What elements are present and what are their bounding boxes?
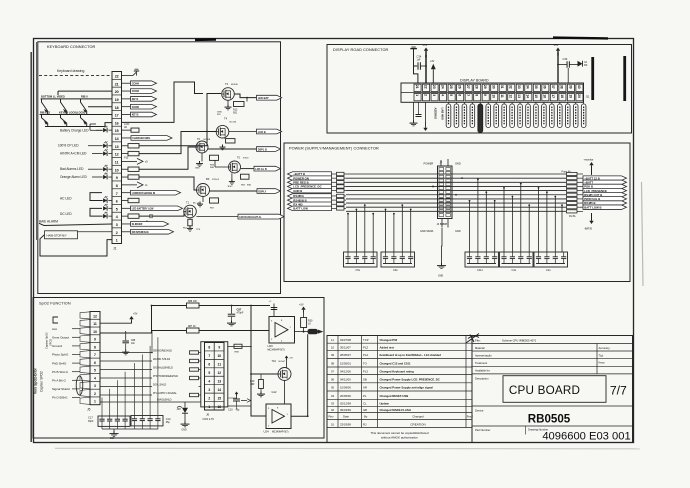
- svg-text:BK: BK: [584, 64, 588, 67]
- ground under BK: [202, 197, 204, 202]
- resistor at pin 4: [122, 215, 129, 217]
- svg-text:Changed RESET-USB: Changed RESET-USB: [380, 394, 409, 398]
- display connector cell pin 32: [508, 84, 515, 91]
- display net flag B06: [494, 104, 499, 128]
- resistor at pin 13: [122, 145, 129, 147]
- wires labels to J6: [199, 352, 201, 354]
- svg-text:02: 02: [331, 408, 335, 412]
- svg-text:19: 19: [568, 94, 572, 98]
- svg-text:Capteur SpO2: Capteur SpO2: [45, 332, 49, 349]
- svg-text:Part Number: Part Number: [475, 428, 490, 432]
- sheet border frame: [34, 39, 634, 443]
- svg-text:40: 40: [577, 85, 581, 89]
- LED diode at pin 15: [103, 126, 107, 133]
- display gnd branch under connector: [413, 102, 415, 121]
- svg-text:SENSOR&SHLD: SENSOR&SHLD: [153, 350, 172, 353]
- J7 bottom stubs: [441, 219, 443, 228]
- wire: [100, 386, 152, 388]
- svg-text:+5V: +5V: [289, 358, 293, 360]
- svg-text:+5V: +5V: [299, 303, 304, 306]
- ground under R40: [260, 389, 262, 393]
- T6 source ground: [201, 153, 203, 161]
- svg-text:TCP: TCP: [363, 338, 369, 342]
- svg-text:GND: GND: [455, 161, 461, 165]
- transistor T1: [184, 205, 197, 218]
- resistor under T1: [189, 218, 191, 220]
- wire R30 to output node: [303, 328, 305, 332]
- svg-text:Changed P02: Changed P02: [380, 338, 398, 342]
- svg-text:BATT LOW: BATT LOW: [293, 207, 308, 211]
- wire pin 20 to net label: [122, 90, 131, 92]
- connector J1 cell divider: [112, 117, 122, 119]
- wire C34 to +5V rail: [420, 65, 426, 67]
- wire drop: [520, 184, 522, 252]
- svg-text:C5x: C5x: [356, 268, 361, 272]
- svg-text:7: 7: [94, 353, 96, 357]
- svg-text:14: 14: [115, 137, 119, 141]
- bus wire row 9: [346, 206, 566, 208]
- svg-text:7: 7: [466, 94, 470, 96]
- T10 gate wire: [251, 373, 278, 375]
- svg-text:9: 9: [218, 346, 220, 350]
- power right net label +BATT 12 B: [583, 176, 627, 181]
- svg-text:U24: U24: [264, 430, 270, 434]
- keyboard matrix wire pin 19: [41, 98, 113, 100]
- wire drop: [116, 380, 118, 410]
- power left net label BATT LOW: [288, 206, 332, 211]
- resistor R30: [301, 318, 307, 328]
- display connector cell pin 26: [457, 84, 464, 91]
- display connector cell pin 38: [559, 84, 566, 91]
- display net flag B03: [470, 104, 475, 128]
- revision row 04: [331, 394, 408, 398]
- bracket symbol: [53, 317, 58, 323]
- bus wire row 2: [346, 177, 566, 179]
- svg-text:96B: 96B: [247, 184, 251, 186]
- connector J1 cell divider: [112, 219, 122, 221]
- svg-text:LED BATTERY LOW: LED BATTERY LOW: [132, 208, 155, 211]
- power left net label RX 485: [288, 202, 332, 207]
- display connector cell pin 4: [440, 94, 447, 101]
- display connector cell pin 25: [448, 84, 455, 91]
- svg-text:Available for: Available for: [475, 369, 490, 373]
- svg-text:33: 33: [517, 85, 521, 89]
- svg-text:+5V: +5V: [133, 313, 138, 316]
- wire power bar down to cap: [414, 49, 418, 83]
- LED diode at pin 5: [103, 204, 107, 211]
- svg-text:6: 6: [94, 361, 96, 365]
- svg-text:C11x: C11x: [477, 268, 484, 272]
- svg-text:470pF: 470pF: [237, 312, 244, 315]
- display connector cell pin 5: [448, 94, 455, 101]
- svg-text:10: 10: [331, 345, 335, 349]
- revision creation row: [331, 422, 426, 426]
- wire from left label: [332, 195, 337, 197]
- svg-text:12: 12: [115, 153, 119, 157]
- connector J1 cell divider: [112, 211, 122, 213]
- keyboard drawing dashed wire: [39, 74, 112, 76]
- svg-text:Changed C12 and C101: Changed C12 and C101: [380, 361, 412, 365]
- T4 drain wire to net: [229, 130, 257, 132]
- wire from left label: [332, 207, 337, 209]
- svg-text:22: 22: [423, 85, 427, 89]
- wire 100% CP LED: [88, 145, 103, 147]
- resistor R55: [241, 174, 250, 179]
- wire U20 output to pill: [295, 331, 309, 333]
- title block row dividers: [472, 344, 633, 435]
- decoupling cap above U20: [273, 304, 275, 317]
- power right net label LCD_PRESENCE: [583, 188, 627, 193]
- wire pin12 to T4 gate: [139, 132, 216, 154]
- ground symbol under display connector: [410, 121, 418, 126]
- svg-text:5: 5: [449, 94, 453, 96]
- LED diode at pin 10: [103, 165, 107, 172]
- svg-text:45p: 45p: [166, 421, 171, 424]
- svg-text:Scheme CPU /RB0505 4071: Scheme CPU /RB0505 4071: [502, 338, 537, 342]
- wire pin 21 to net label: [122, 82, 131, 84]
- svg-text:DISPLAY BOARD: DISPLAY BOARD: [460, 78, 489, 82]
- display connector cell pin 30: [491, 84, 498, 91]
- bus wire row 1: [346, 173, 566, 175]
- svg-text:CPU BOARD: CPU BOARD: [509, 384, 580, 397]
- gnd under J7 region: [441, 219, 443, 265]
- svg-text:15/05/01: 15/05/01: [340, 361, 351, 365]
- bus wire row 3: [346, 181, 566, 183]
- svg-text:Keus: Keus: [599, 361, 606, 365]
- net label CON4: [131, 81, 157, 86]
- net label DISPLAY B: [257, 147, 281, 152]
- series resistor right row 9: [567, 206, 578, 209]
- svg-text:6: 6: [116, 200, 118, 204]
- svg-text:13: 13: [517, 94, 521, 98]
- svg-text:1uF: 1uF: [417, 59, 422, 62]
- svg-text:KB INTERFACE: KB INTERFACE: [132, 231, 149, 234]
- svg-text:+C: +C: [269, 301, 272, 303]
- wire: [100, 360, 152, 362]
- display net flag B17: [581, 104, 586, 128]
- svg-text:without AMOK authorization: without AMOK authorization: [381, 436, 418, 440]
- svg-text:LOWBAT/CHARGE IN: LOWBAT/CHARGE IN: [132, 192, 156, 195]
- small series resistor: [190, 351, 199, 354]
- signal wire: [72, 371, 80, 373]
- svg-text:Vers SpO2-DrOr: Vers SpO2-DrOr: [34, 368, 38, 394]
- display connector cell pin 39: [567, 84, 574, 91]
- small series resistor: [190, 368, 199, 371]
- display connector cell pin 31: [499, 84, 506, 91]
- wire: [100, 352, 152, 354]
- wire C36 branch down: [567, 68, 569, 83]
- svg-text:CON 2-TK: CON 2-TK: [203, 418, 215, 421]
- svg-text:C4x: C4x: [512, 268, 517, 272]
- svg-text:96B: 96B: [210, 167, 214, 169]
- signal wire: [72, 328, 80, 330]
- svg-text:11: 11: [331, 338, 334, 342]
- display connector cell pin 15: [533, 94, 540, 101]
- wire drop: [401, 205, 403, 252]
- wire: [100, 394, 152, 396]
- svg-text:27: 27: [466, 85, 470, 89]
- display net flag B05: [486, 104, 491, 128]
- cap banks bottom bus wire: [102, 428, 158, 430]
- net label LCD B: [257, 129, 282, 134]
- revision row 10: [331, 345, 394, 349]
- display net flag B12: [542, 104, 547, 128]
- net label KB INTERFACE at pin 2: [122, 231, 131, 233]
- display net flag B09: [518, 104, 523, 128]
- vertical wire from J5 row to top run: [100, 306, 152, 334]
- svg-text:HAIB-STOP B/Y: HAIB-STOP B/Y: [47, 234, 67, 238]
- revision row 08: [331, 361, 411, 365]
- signal wire: [72, 345, 80, 347]
- wire from left label: [332, 177, 337, 179]
- J7 top stubs: [440, 160, 442, 166]
- svg-text:GND: GND: [217, 112, 222, 114]
- svg-text:KEY1: KEY1: [132, 97, 139, 101]
- net label CON3: [131, 89, 157, 94]
- U24 output wire right and up: [291, 334, 308, 416]
- power left net label POWER ON: [288, 176, 332, 181]
- power left net label RS485A: [288, 194, 332, 199]
- svg-text:3P62: 3P62: [228, 186, 234, 188]
- key switch S3: [81, 99, 87, 111]
- svg-text:GND: GND: [182, 430, 187, 432]
- T2 drain wire: [234, 94, 256, 98]
- J5 pin funnels: [80, 312, 90, 405]
- svg-text:Rx 8A: Rx 8A: [569, 215, 576, 218]
- display net flag B14: [558, 104, 563, 128]
- svg-text:J5: J5: [87, 408, 91, 412]
- keyboard matrix wire pin 20: [58, 91, 112, 95]
- display net flag B07: [502, 104, 507, 128]
- resistor under BK: [210, 198, 219, 203]
- svg-text:8: 8: [208, 346, 210, 350]
- svg-text:22: 22: [115, 75, 119, 79]
- LED diode at pin 12: [103, 149, 107, 156]
- svg-text:302: 302: [110, 437, 115, 440]
- display net flag B01: [454, 104, 459, 128]
- connector J1 cell divider: [112, 227, 122, 229]
- display connector cell pin 21: [414, 84, 421, 91]
- svg-text:30/11/07: 30/11/07: [340, 345, 351, 349]
- svg-text:BAIE ALARM: BAIE ALARM: [39, 219, 58, 223]
- svg-text:SB: SB: [363, 377, 367, 381]
- svg-text:14: 14: [526, 94, 530, 98]
- long vertical wire from top run to U24 input: [251, 306, 266, 417]
- description inner box: [503, 376, 606, 403]
- T6 drain wire: [208, 148, 257, 150]
- capacitor bank C5x box: [344, 252, 378, 267]
- svg-text:BC x4: BC x4: [193, 203, 200, 205]
- net label KEY2: [131, 112, 157, 117]
- connector J7 body: [438, 166, 453, 219]
- svg-text:8: 8: [475, 94, 479, 96]
- revision table horizontal rules: [327, 343, 472, 427]
- svg-text:C36: C36: [563, 57, 568, 61]
- svg-text:5: 5: [94, 369, 96, 373]
- connector J1 cell divider: [112, 188, 122, 190]
- capacitor C34: [418, 62, 420, 70]
- svg-text:CON2: CON2: [132, 105, 140, 109]
- svg-text:23/03/99: 23/03/99: [340, 422, 351, 426]
- svg-text:100% CP LED: 100% CP LED: [58, 144, 79, 148]
- svg-text:2: 2: [94, 392, 96, 396]
- svg-text:PH-SUPPLY-SIGNAL: PH-SUPPLY-SIGNAL: [153, 392, 177, 395]
- file row: [475, 338, 537, 342]
- svg-text:20: 20: [577, 94, 581, 98]
- svg-text:Ph D BShG: Ph D BShG: [52, 396, 68, 400]
- signal wire: [72, 362, 80, 364]
- capacitor bank C4x box: [500, 252, 534, 267]
- svg-text:11: 11: [500, 94, 504, 98]
- small series resistor: [190, 376, 199, 379]
- svg-text:CHARGE/CHRG: CHARGE/CHRG: [132, 137, 150, 140]
- svg-text:28: 28: [475, 85, 479, 89]
- net label CHARGE at pin 14: [122, 137, 132, 139]
- connector J1 cell divider: [112, 180, 122, 182]
- svg-text:+3V: +3V: [430, 60, 435, 63]
- svg-text:NTD4.5: NTD4.5: [212, 179, 220, 181]
- wire pin 17 to net label: [122, 114, 131, 116]
- signal wire: [72, 354, 80, 356]
- connector J1 cell divider: [112, 141, 122, 143]
- wire from left label: [332, 190, 337, 192]
- svg-text:BC744: BC744: [230, 122, 237, 124]
- svg-text:03: 03: [331, 401, 335, 405]
- display connector cell pin 37: [550, 84, 557, 91]
- resistor at pin 9: [122, 176, 129, 178]
- key switch S1: [42, 99, 48, 111]
- svg-text:Bad Alarms LED: Bad Alarms LED: [60, 167, 84, 171]
- resistor under T4: [224, 138, 226, 139]
- revision row 05: [331, 386, 433, 390]
- svg-text:SIGNAL&SHIELD: SIGNAL&SHIELD: [153, 367, 173, 370]
- svg-text:Ph A Bh G: Ph A Bh G: [52, 379, 67, 383]
- thick mark bar 1: [591, 57, 594, 100]
- T2 source to ground wire: [227, 100, 229, 104]
- svg-text:02/12/99: 02/12/99: [340, 401, 351, 405]
- transistor BK: [197, 184, 210, 197]
- gate routing vertical wire A: [122, 82, 204, 122]
- wire drop: [494, 201, 496, 252]
- svg-text:Battery Charge LED: Battery Charge LED: [60, 128, 89, 132]
- series resistor right row 6: [567, 193, 578, 196]
- svg-text:Changed Keyboard rating: Changed Keyboard rating: [380, 369, 414, 373]
- svg-text:KEY2: KEY2: [132, 113, 139, 117]
- svg-text:17: 17: [115, 114, 119, 118]
- resistor at pin 6: [122, 200, 129, 202]
- svg-text:12: 12: [217, 371, 221, 375]
- display section box: [327, 45, 632, 134]
- T5 source ground: [231, 173, 233, 179]
- revision row 03: [331, 401, 389, 405]
- display net flag B16: [573, 104, 578, 128]
- sheet border inner left line: [36, 42, 38, 240]
- svg-text:POWER: POWER: [424, 161, 434, 165]
- power section box: [284, 143, 630, 282]
- svg-text:NTD4: NTD4: [243, 157, 249, 159]
- svg-text:RJ: RJ: [363, 422, 367, 426]
- svg-text:JP2: JP2: [177, 408, 182, 411]
- output net pill dark: [308, 329, 324, 334]
- svg-text:1: 1: [94, 400, 96, 404]
- wire drop: [477, 179, 479, 252]
- display connector cell pin 24: [440, 84, 447, 91]
- series resistor right row 8: [567, 201, 578, 204]
- svg-text:12: 12: [93, 314, 97, 318]
- svg-text:C88: C88: [131, 340, 136, 342]
- series resistor left row 7: [337, 198, 345, 201]
- pin 22 termination symbol: [122, 69, 140, 75]
- wire drop: [503, 188, 505, 252]
- svg-text:4: 4: [440, 94, 444, 96]
- svg-text:File:: File:: [475, 339, 481, 343]
- svg-text:2: 2: [116, 231, 118, 235]
- net label LCD AL B: [254, 166, 281, 171]
- connector J6 outer box: [201, 342, 228, 407]
- resistor R40: [260, 374, 262, 380]
- svg-text:15: 15: [534, 94, 538, 98]
- svg-text:1: 1: [116, 239, 118, 243]
- display connector cell pin 19: [567, 94, 574, 101]
- series resistor left row 5: [337, 189, 345, 192]
- svg-text:15: 15: [115, 129, 119, 133]
- svg-text:Photo SphG: Photo SphG: [52, 353, 69, 357]
- svg-text:-BAT/B: -BAT/B: [584, 228, 592, 231]
- diode D at display right: [578, 61, 583, 67]
- svg-text:09: 09: [331, 353, 335, 357]
- keyboard matrix wire pin 18: [88, 106, 112, 108]
- svg-text:LED BAT: LED BAT: [258, 96, 269, 100]
- svg-text:PLZ: PLZ: [363, 345, 368, 349]
- power bar symbol left: [410, 48, 417, 50]
- svg-text:CON3: CON3: [132, 89, 140, 93]
- display connector cell pin 17: [550, 94, 557, 101]
- display connector cell pin 36: [542, 84, 549, 91]
- bus wire row 7: [346, 198, 566, 200]
- pin 8 stub mark: [122, 184, 138, 186]
- copyright note: [370, 431, 428, 440]
- svg-text:10: 10: [93, 330, 97, 334]
- resistor R87 horizontal: [187, 328, 200, 333]
- net label KLINKER at pin 3: [122, 223, 131, 225]
- svg-text:Avo: Avo: [52, 327, 57, 331]
- svg-text:GND: GND: [195, 168, 200, 170]
- display connector cell pin 27: [465, 84, 472, 91]
- svg-text:Capteur SPO2: Capteur SPO2: [40, 371, 44, 392]
- svg-text:Changed: Changed: [412, 414, 424, 418]
- svg-text:DISPLAY ROAD CONNECTOR: DISPLAY ROAD CONNECTOR: [333, 48, 389, 52]
- wire drop: [485, 192, 487, 252]
- wire drop: [364, 205, 366, 252]
- power right net label POK B: [583, 184, 627, 189]
- display connector cell pin 29: [482, 84, 489, 91]
- display net flag B15: [565, 104, 570, 128]
- key switch S2: [61, 99, 67, 111]
- net label DISPLAY: [257, 189, 281, 194]
- connector J1 cell divider: [112, 125, 122, 127]
- svg-text:LCD AL B: LCD AL B: [255, 168, 267, 171]
- connector J6 body: [205, 343, 225, 411]
- connector J1 cell divider: [112, 86, 122, 88]
- svg-text:AC LED: AC LED: [60, 197, 72, 201]
- svg-text:6: 6: [458, 94, 462, 96]
- wire drop: [101, 398, 103, 411]
- wire from signal row up: [151, 331, 153, 353]
- svg-text:32: 32: [509, 85, 513, 89]
- svg-text:8: 8: [116, 184, 118, 188]
- key switch S4: [42, 115, 48, 124]
- svg-text:26: 26: [458, 85, 462, 89]
